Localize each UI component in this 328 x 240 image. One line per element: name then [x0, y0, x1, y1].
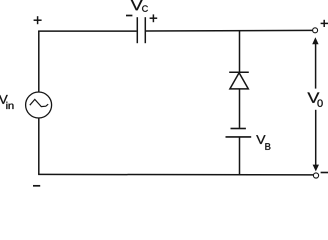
wire: battery bottom plate to bottom rail: [239, 138, 241, 175]
diode D triangle (anode, apex up): [230, 73, 248, 89]
plus polarity mark at top-right output terminal: [321, 20, 328, 27]
minus polarity mark at bottom-right output terminal: [321, 172, 328, 174]
AC source sine wave symbol: [30, 99, 48, 106]
label Vin: subscript in: [6, 102, 13, 109]
V0 arrowhead, top (pointing up): [312, 37, 318, 44]
wire: left vertical rail, source bottom to corner: [38, 118, 40, 174]
label VC: main letter V: [131, 0, 143, 10]
V0 measurement arrow, upper shaft: [315, 44, 317, 89]
minus polarity mark below bottom-left corner: [33, 185, 40, 187]
battery VB short top plate: [231, 128, 246, 130]
label VB: main letter V: [256, 135, 265, 144]
minus polarity mark left of capacitor: [126, 15, 132, 17]
label VC: subscript C: [142, 5, 148, 11]
label VB: subscript B: [265, 143, 270, 150]
AC source Vin circle: [26, 92, 52, 118]
V0 measurement arrow, lower shaft: [315, 110, 317, 165]
wire: top rail, left corner to capacitor left plate: [38, 30, 137, 32]
output terminal circle, bottom right: [313, 173, 318, 178]
diode D cathode bar: [229, 71, 249, 73]
node: top-left plus polarity mark: [34, 16, 42, 24]
capacitor C left plate: [136, 17, 138, 43]
V0 arrowhead, bottom (pointing down): [313, 165, 319, 172]
wire: left vertical rail, corner down to source top: [38, 31, 40, 92]
label Vin: main letter V: [0, 95, 8, 104]
output terminal circle, top right: [313, 28, 318, 33]
wire: diode branch drop from top rail junction: [239, 31, 241, 72]
wire: bottom rail: [38, 173, 313, 176]
plus polarity mark right of capacitor: [150, 14, 158, 22]
wire: diode anode to battery top plate: [239, 89, 241, 128]
wire: top rail, capacitor right plate to output terminal: [146, 29, 313, 32]
capacitor C right plate: [144, 17, 146, 43]
label V0: main letter V: [307, 92, 319, 102]
label V0: subscript 0: [317, 99, 322, 106]
battery VB long bottom plate: [226, 136, 252, 138]
